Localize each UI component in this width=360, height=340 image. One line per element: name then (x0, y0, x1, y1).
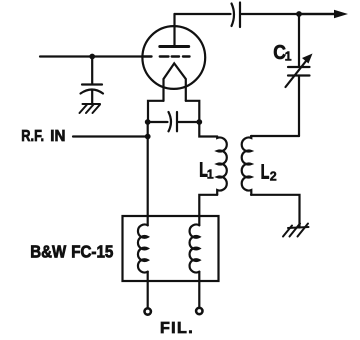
wire: L2 top (251, 135, 299, 137)
wire: junction down to bypass cap (91, 57, 93, 84)
svg-text:1: 1 (285, 50, 292, 64)
terminal (right) (196, 308, 202, 314)
wire: L1 bottom into box (199, 195, 217, 226)
node: cathode cap left (145, 119, 151, 125)
node: RF in junction (145, 134, 151, 140)
inductor L2 (humps left) (242, 136, 252, 195)
tube plate bar (160, 45, 189, 48)
svg-text:B&W: B&W (30, 241, 66, 262)
wire: right junction down to L1 (199, 122, 217, 137)
terminal (left) (145, 308, 151, 314)
wire: capacitor to junction (242, 13, 335, 15)
wire: left junction down (147, 122, 149, 225)
node: grid bypass junction (89, 54, 95, 60)
wire: plate to coupling capacitor (175, 13, 231, 15)
svg-text:L: L (261, 160, 270, 183)
filament choke right coil (humps left) (190, 225, 200, 273)
svg-text:IN: IN (50, 128, 65, 145)
cathode capacitor wires (148, 121, 168, 123)
wire: RF input (73, 135, 148, 137)
output arrow (334, 10, 348, 19)
svg-text:2: 2 (270, 170, 277, 184)
variable capacitor C1 (288, 66, 310, 68)
wire: junction down to C1 (298, 14, 300, 66)
ground (right) (283, 224, 309, 237)
cathode base steps (148, 101, 164, 120)
wire: cap to ground (91, 90, 93, 104)
wire: right coil to terminal (198, 272, 200, 308)
wire: left coil to terminal (147, 272, 149, 308)
wire: L2 bottom to ground (251, 195, 300, 228)
grid bypass capacitor (82, 83, 102, 85)
tube grid (dashed) (142, 55, 190, 57)
node: cathode cap right (196, 119, 202, 125)
svg-text:FIL.: FIL. (160, 320, 194, 337)
tube cathode arch (164, 63, 186, 100)
cathode capacitor (curved + straight plate) (169, 112, 172, 131)
tube plate lead (173, 14, 175, 47)
wire: C1 down to L2 top (298, 77, 300, 137)
coupling capacitor (curved + straight plate) (232, 4, 235, 27)
filament choke left coil (humps left) (138, 225, 148, 273)
svg-text:1: 1 (207, 167, 214, 181)
svg-text:FC-15: FC-15 (71, 241, 113, 262)
wire: grid lead (40, 55, 142, 57)
tube V1 envelope (142, 26, 205, 89)
box B&W FC-15 (123, 216, 219, 281)
ground (left) (80, 104, 101, 113)
inductor L1 (humps right) (217, 137, 227, 195)
svg-text:R.F.: R.F. (21, 128, 44, 146)
node: output junction (296, 11, 302, 17)
